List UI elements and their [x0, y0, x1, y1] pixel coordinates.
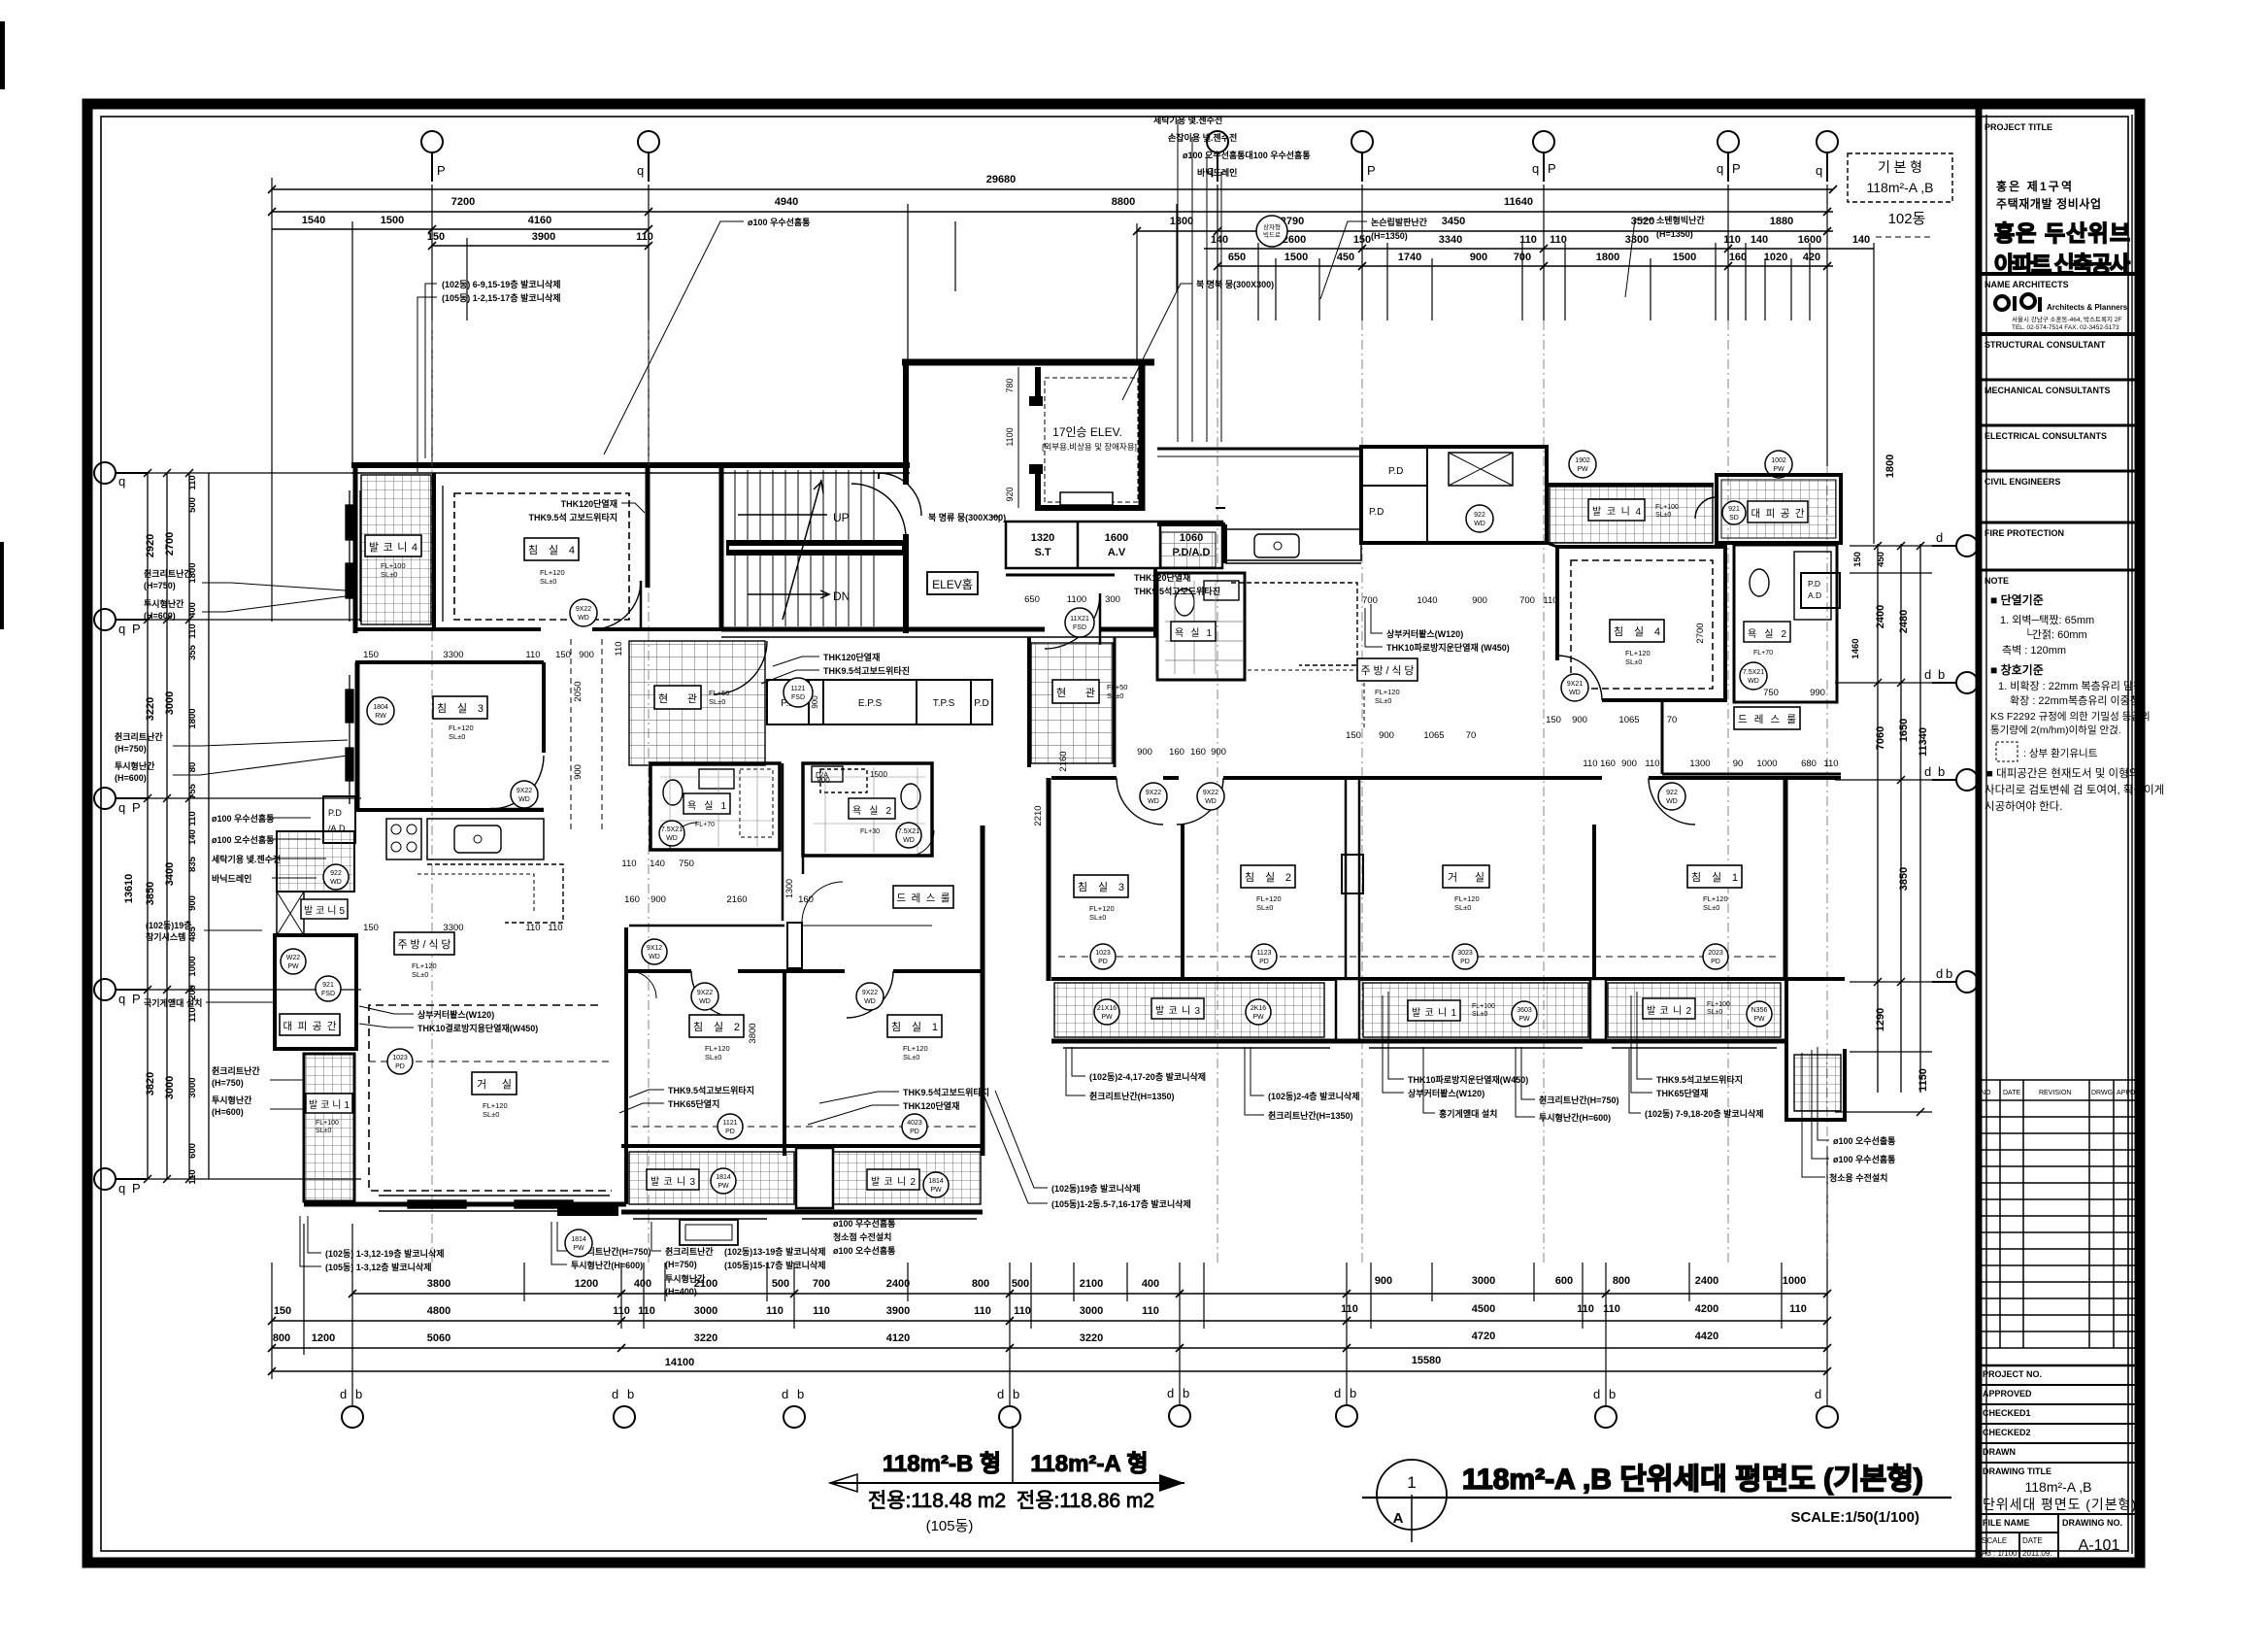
- dressroom door leaf: [787, 923, 802, 968]
- svg-text:WD: WD: [578, 615, 589, 622]
- wall party left: [1047, 778, 1051, 981]
- svg-text:WD: WD: [699, 998, 711, 1005]
- svg-text:110: 110: [187, 1007, 198, 1022]
- svg-text:CHECKED2: CHECKED2: [1983, 1428, 2031, 1437]
- architect logo: [1995, 294, 2040, 312]
- svg-text:PW: PW: [1518, 1016, 1530, 1023]
- svg-text:NOTE: NOTE: [1984, 576, 2009, 586]
- svg-text:920: 920: [1005, 487, 1015, 501]
- svg-text:3000: 3000: [164, 1076, 176, 1099]
- wall left exterior bedroom3: [355, 662, 360, 811]
- svg-text:d: d: [1936, 530, 1943, 545]
- balcony1 hatch: [304, 1054, 354, 1201]
- svg-text:FL+120: FL+120: [1256, 894, 1282, 903]
- dim tick marks top: [268, 185, 1837, 270]
- dim line row1 overall 29680: [272, 188, 1833, 190]
- svg-text:150: 150: [363, 650, 379, 660]
- balcony divider left unit: [796, 1148, 833, 1208]
- svg-text:650: 650: [1228, 252, 1246, 263]
- tag circle top center: [1256, 216, 1287, 247]
- wall balcony bottom left unit: [621, 1210, 983, 1215]
- svg-text:9X22: 9X22: [517, 788, 532, 794]
- svg-text:THK9.5석고보드위타진: THK9.5석고보드위타진: [823, 665, 910, 676]
- svg-text:췬크리트난간: 췬크리트난간: [144, 568, 192, 579]
- svg-text:300: 300: [1105, 594, 1120, 605]
- svg-text:q: q: [118, 992, 125, 1006]
- svg-text:922: 922: [1474, 512, 1485, 519]
- svg-text:췬크리트난간(H=1350): 췬크리트난간(H=1350): [1089, 1091, 1174, 1101]
- svg-text:1100: 1100: [1067, 594, 1086, 605]
- leader bottom cluster 3: [665, 1246, 714, 1297]
- svg-text:ELECTRICAL CONSULTANTS: ELECTRICAL CONSULTANTS: [1984, 431, 2107, 441]
- svg-text:2400: 2400: [1875, 605, 1886, 628]
- entry dim row right unit: [1024, 594, 1120, 605]
- leader cluster top middle: [1153, 115, 1311, 178]
- svg-text:P: P: [132, 800, 141, 815]
- svg-text:110: 110: [548, 923, 562, 933]
- svg-text:ø100 우수선홈통: ø100 우수선홈통: [212, 813, 274, 824]
- svg-text:110: 110: [187, 811, 198, 825]
- leader rail left 2: [115, 731, 163, 783]
- svg-text:시공하여야 한다.: 시공하여야 한다.: [1984, 799, 2062, 813]
- svg-text:7060: 7060: [1875, 726, 1886, 750]
- revision table: [1979, 1080, 2140, 1348]
- svg-text:(102동)13-19층 발코니삭제: (102동)13-19층 발코니삭제: [724, 1246, 826, 1257]
- svg-text:RW: RW: [375, 713, 386, 720]
- svg-text:(102동) 1-3,12-19층 발코니삭제: (102동) 1-3,12-19층 발코니삭제: [325, 1248, 445, 1259]
- svg-text:췬크리트난간: 췬크리트난간: [115, 731, 163, 742]
- balcony4 right hatch: [1550, 487, 1713, 543]
- kitchen stove: [386, 819, 421, 859]
- balcony3 label left: [647, 1169, 699, 1190]
- PD dashed line left unit: [369, 1061, 612, 1062]
- svg-text:755: 755: [187, 783, 198, 799]
- svg-text:기본형: 기본형: [1878, 159, 1922, 175]
- svg-text:110: 110: [813, 1305, 830, 1317]
- svg-text:THK120단열재: THK120단열재: [903, 1100, 959, 1111]
- tag PW bottom left: [565, 1230, 592, 1257]
- svg-text:욕실2: 욕실2: [852, 805, 891, 817]
- svg-text:(H=400): (H=400): [665, 1287, 697, 1297]
- svg-text:췬크리트난간: 췬크리트난간: [212, 1065, 260, 1076]
- svg-text:d: d: [997, 1387, 1004, 1401]
- svg-text:청소용 수전설치: 청소용 수전설치: [1829, 1172, 1887, 1183]
- tag FSD hall door: [1065, 608, 1094, 637]
- grid bubble tails left: [118, 474, 141, 1196]
- wall bed1 right: [981, 825, 985, 1156]
- door tag bedroom3: [511, 781, 538, 808]
- svg-text:WD: WD: [903, 837, 915, 844]
- svg-text:b: b: [1609, 1387, 1616, 1401]
- svg-text:사다리로 검토변쉐 검 토여여, 확좋이게: 사다리로 검토변쉐 검 토여여, 확좋이게: [1984, 784, 2164, 796]
- svg-text:투시형난간: 투시형난간: [212, 1095, 252, 1105]
- svg-text:ø100 오수선홈통: ø100 오수선홈통: [212, 834, 274, 845]
- svg-text:ø100 오수선홈통대100 우수선홈통: ø100 오수선홈통대100 우수선홈통: [1183, 150, 1311, 160]
- svg-text:3000: 3000: [694, 1305, 717, 1317]
- svg-text:FL+100: FL+100: [1472, 1003, 1495, 1010]
- svg-text:발코니5: 발코니5: [304, 905, 345, 917]
- svg-text:PD: PD: [725, 1129, 735, 1135]
- door arc bedroom4 left: [592, 581, 641, 629]
- svg-text:FSD: FSD: [1073, 624, 1086, 631]
- stair landing bar: [726, 540, 905, 556]
- svg-text:780: 780: [1005, 378, 1015, 392]
- svg-text:4160: 4160: [528, 215, 551, 226]
- svg-text:WD: WD: [1569, 690, 1581, 696]
- svg-text:SL±0: SL±0: [449, 732, 465, 741]
- svg-text:투시형난간: 투시형난간: [144, 598, 184, 609]
- svg-text:110: 110: [1723, 234, 1741, 246]
- svg-text:q: q: [118, 622, 125, 636]
- leader wall note bedroom4 right: [1386, 628, 1510, 653]
- svg-text:1000: 1000: [187, 956, 198, 976]
- svg-text:1300: 1300: [1689, 758, 1710, 769]
- svg-text:110: 110: [614, 641, 624, 656]
- svg-text:q: q: [118, 474, 125, 489]
- svg-text:102동: 102동: [1888, 211, 1926, 227]
- svg-text:2480: 2480: [1898, 610, 1910, 633]
- svg-text:(H=1350): (H=1350): [1656, 229, 1693, 239]
- svg-text:900: 900: [573, 764, 584, 780]
- svg-text:DRWG: DRWG: [2091, 1090, 2113, 1096]
- wall bed2/living right unit: [1346, 778, 1359, 981]
- leader far right pipes: [1829, 1135, 1895, 1183]
- svg-text:3603: 3603: [1517, 1007, 1532, 1014]
- door arc stair to hall: [851, 484, 906, 538]
- svg-text:PW: PW: [573, 1245, 584, 1252]
- dressroom right walls: [1661, 702, 1664, 774]
- door arcs bedrooms left unit: [691, 971, 738, 1018]
- bottom step ledge: [557, 1204, 618, 1216]
- svg-text:2100: 2100: [1080, 1278, 1103, 1290]
- bathroom2 label left: [849, 798, 895, 819]
- svg-text:DN: DN: [833, 590, 850, 603]
- room4 insulation dashed: [454, 493, 629, 620]
- svg-text:d: d: [1593, 1387, 1600, 1401]
- svg-text:전용:118.48 m2: 전용:118.48 m2: [868, 1490, 1006, 1512]
- svg-text:90: 90: [1733, 758, 1744, 769]
- PD circles left unit: [387, 1049, 413, 1074]
- svg-text:확장 : 22mm복층유리 이중창: 확장 : 22mm복층유리 이중창: [2010, 694, 2140, 707]
- svg-text:(H=600): (H=600): [212, 1107, 244, 1117]
- wall core top: [351, 462, 910, 468]
- svg-text:d: d: [1924, 667, 1931, 682]
- svg-text:A: A: [1393, 1510, 1404, 1527]
- svg-text:110: 110: [1577, 1303, 1594, 1315]
- svg-text:150: 150: [363, 923, 379, 933]
- door arcs bedrooms right unit: [1117, 778, 1163, 825]
- svg-text:FL+120: FL+120: [483, 1101, 508, 1110]
- svg-text:단위세대 평면도 (기본형): 단위세대 평면도 (기본형): [1983, 1497, 2136, 1512]
- svg-text:APPROVED: APPROVED: [1983, 1389, 2032, 1398]
- svg-text:바닉드레인: 바닉드레인: [212, 873, 251, 884]
- door tags bedrooms left: [691, 983, 718, 1010]
- wall elevator block left: [903, 362, 909, 485]
- svg-text:홍기게얟대 설치: 홍기게얟대 설치: [1439, 1108, 1497, 1119]
- svg-text:SL±0: SL±0: [1089, 913, 1106, 922]
- svg-text:q: q: [118, 1181, 125, 1196]
- svg-text:150: 150: [1346, 730, 1361, 741]
- svg-text:THK9.5석고보드위타진: THK9.5석고보드위타진: [1134, 586, 1220, 596]
- svg-text:욕실1: 욕실1: [1175, 627, 1212, 639]
- svg-text:PD: PD: [910, 1129, 919, 1135]
- scan artifact left edge top: [0, 21, 5, 89]
- duct strip labels: [781, 698, 988, 709]
- tag WD balcony5: [323, 864, 349, 890]
- svg-text:q: q: [637, 163, 644, 178]
- svg-text:110: 110: [525, 650, 540, 660]
- wall bedroom4 right: [646, 465, 650, 588]
- svg-text:세탁기용 넻.젠수전: 세탁기용 넻.젠수전: [1153, 115, 1222, 125]
- svg-text:DRAWING TITLE: DRAWING TITLE: [1983, 1466, 2051, 1476]
- svg-text:WD: WD: [1474, 521, 1485, 527]
- grid bubble tails top: [437, 161, 1822, 178]
- svg-text:2400: 2400: [886, 1278, 910, 1290]
- kitchen dim row right: [1362, 595, 1558, 606]
- svg-text:DRAWN: DRAWN: [1983, 1447, 2016, 1457]
- svg-text:b: b: [355, 1387, 362, 1401]
- svg-text:SL±0: SL±0: [1703, 903, 1719, 912]
- wall foyer right: [1027, 637, 1031, 767]
- svg-text:WD: WD: [518, 796, 530, 803]
- svg-text:(H=600): (H=600): [144, 611, 176, 621]
- balcony2 label left: [867, 1169, 919, 1190]
- svg-text:110: 110: [1014, 1305, 1031, 1317]
- svg-text:THK120단열재: THK120단열재: [561, 498, 617, 509]
- door arc foyer left: [714, 641, 767, 694]
- title block inner edge thin: [1985, 115, 1987, 1554]
- svg-text:118m²-B 형: 118m²-B 형: [883, 1451, 1001, 1477]
- svg-text:835: 835: [187, 856, 198, 872]
- svg-text:빅드로: 빅드로: [1263, 230, 1281, 239]
- wall balcony4 right top: [1547, 483, 1714, 487]
- svg-text:통기량에 2(m/hm)이하일 안걵.: 통기량에 2(m/hm)이하일 안걵.: [1990, 724, 2121, 736]
- svg-text:투시형난간: 투시형난간: [115, 760, 155, 771]
- left dim numbers rotated: [123, 475, 198, 1184]
- svg-text:1290: 1290: [1875, 1008, 1886, 1031]
- svg-text:DATE: DATE: [2003, 1090, 2020, 1096]
- svg-text:상자형: 상자형: [1263, 222, 1281, 231]
- svg-text:PW: PW: [717, 1183, 729, 1190]
- svg-text:8800: 8800: [1112, 196, 1135, 208]
- svg-text:900: 900: [1379, 730, 1394, 741]
- svg-text:110: 110: [1583, 758, 1597, 769]
- svg-text:3850: 3850: [145, 882, 156, 905]
- corridor walls between baths: [782, 763, 784, 921]
- svg-text:9X22: 9X22: [1203, 790, 1218, 796]
- svg-text:150: 150: [427, 231, 445, 243]
- room label bedroom2 right: [1241, 865, 1295, 888]
- svg-text:900: 900: [1137, 747, 1152, 758]
- svg-text:9X12: 9X12: [647, 945, 662, 952]
- svg-text:b: b: [1938, 764, 1945, 779]
- svg-text:FILE NAME: FILE NAME: [1983, 1518, 2030, 1528]
- svg-text:700: 700: [1519, 595, 1535, 606]
- svg-text:A.V: A.V: [1108, 547, 1126, 558]
- svg-text:2210: 2210: [1033, 805, 1044, 825]
- svg-text:140: 140: [1211, 234, 1228, 246]
- leader wall note right living: [1408, 1074, 1528, 1098]
- svg-text:17인승 ELEV.: 17인승 ELEV.: [1052, 425, 1122, 439]
- svg-text:110: 110: [1603, 1303, 1620, 1315]
- leader bottom cluster 4: [724, 1246, 826, 1270]
- svg-text:1121: 1121: [722, 1120, 737, 1127]
- leader bottom cluster 1: [325, 1248, 445, 1272]
- title block divider architect/structural: [1979, 332, 2140, 336]
- svg-text:SL±0: SL±0: [412, 970, 428, 979]
- room label bedroom3 left: [433, 696, 487, 719]
- svg-text:THK10파로방지운단열재(W450): THK10파로방지운단열재(W450): [1408, 1074, 1528, 1085]
- dim line row3 left: [272, 228, 649, 230]
- leader bottom cluster 2: [571, 1246, 650, 1270]
- svg-text:ø100 우수선홈통: ø100 우수선홈통: [748, 217, 810, 227]
- wall bedroom3 bottom: [355, 808, 544, 812]
- svg-text:1000: 1000: [1783, 1275, 1806, 1287]
- svg-text:WD: WD: [1148, 798, 1159, 805]
- svg-text:투시형난간(H=600): 투시형난간(H=600): [1539, 1112, 1611, 1123]
- svg-text:KS F2292 규정에 의한 기밀성 등급의: KS F2292 규정에 의한 기밀성 등급의: [1990, 711, 2151, 723]
- svg-text:P: P: [132, 992, 141, 1006]
- foyer left unit hatch: [629, 641, 765, 765]
- svg-text:1121: 1121: [790, 686, 805, 692]
- svg-text:홍은 두산위브: 홍은 두산위브: [1994, 220, 2130, 246]
- svg-text:1500: 1500: [1284, 252, 1308, 263]
- svg-text:922: 922: [330, 870, 342, 877]
- svg-text:4200: 4200: [1695, 1303, 1718, 1315]
- tag WD laundry: [1466, 505, 1493, 532]
- wall hall bottom: [721, 627, 1045, 632]
- svg-text:WD: WD: [330, 879, 342, 886]
- door tag bedroom4 left: [570, 599, 597, 626]
- svg-text:P.D: P.D: [1808, 579, 1820, 589]
- svg-text:800: 800: [273, 1332, 290, 1344]
- bathroom2 right label: [1744, 622, 1790, 642]
- svg-text:DATE: DATE: [2022, 1536, 2043, 1545]
- svg-text:1804: 1804: [373, 704, 388, 711]
- svg-text:PD: PD: [395, 1063, 405, 1070]
- svg-text:(105동) 1-3,12층 발코니삭제: (105동) 1-3,12층 발코니삭제: [325, 1262, 432, 1272]
- svg-text:[외부용,비상용 및 장애자용]: [외부용,비상용 및 장애자용]: [1042, 442, 1137, 452]
- svg-text:700: 700: [1362, 595, 1378, 606]
- border frame inner thin: [101, 117, 2128, 1551]
- kitchen upper cabinet dashed: [427, 864, 563, 923]
- wall bedroom3 top: [355, 660, 544, 664]
- wall balcony4/room4: [432, 473, 436, 629]
- svg-text:118m²-A ,B: 118m²-A ,B: [2025, 1479, 2092, 1495]
- dim line row4 right: [1204, 248, 1874, 250]
- svg-text:(H=750): (H=750): [115, 744, 147, 754]
- svg-text:(H=1350): (H=1350): [1371, 231, 1408, 241]
- title block divider fire/note: [1979, 569, 2140, 572]
- svg-text:9X22: 9X22: [1146, 790, 1161, 796]
- svg-text:WD: WD: [864, 998, 876, 1005]
- svg-text:ø100 오수선출통: ø100 오수선출통: [1833, 1135, 1895, 1146]
- svg-text:P: P: [1732, 161, 1741, 176]
- leader wall note kitchen left: [823, 652, 910, 676]
- svg-text:세탁기용 넻.젠수전: 세탁기용 넻.젠수전: [212, 854, 281, 864]
- border frame outer: [87, 104, 2140, 1563]
- svg-text:b: b: [1350, 1386, 1356, 1400]
- svg-text:110: 110: [1341, 1303, 1358, 1315]
- svg-text:110: 110: [1142, 1305, 1159, 1317]
- svg-text:(105동)15-17층 발코니삭제: (105동)15-17층 발코니삭제: [724, 1260, 826, 1270]
- balcony3 label right: [1151, 998, 1204, 1019]
- wall living/bed2: [624, 927, 628, 1204]
- svg-text:1800: 1800: [1596, 252, 1619, 263]
- bathroom1 right label: [1171, 622, 1216, 641]
- svg-text:1150: 1150: [1918, 1068, 1929, 1092]
- svg-text:150: 150: [274, 1305, 291, 1317]
- svg-text:FL+100: FL+100: [316, 1120, 339, 1127]
- escape room left walls: [275, 935, 356, 1049]
- svg-text:2050: 2050: [573, 681, 584, 701]
- svg-text:E.P.S: E.P.S: [858, 698, 883, 709]
- svg-text:췬크리트난간(H=750): 췬크리트난간(H=750): [1539, 1095, 1618, 1105]
- svg-text:T.P.S: T.P.S: [933, 698, 955, 709]
- type divider: [1012, 1426, 1014, 1484]
- tag SD escape: [1722, 501, 1746, 524]
- svg-text:PD: PD: [1711, 959, 1720, 965]
- svg-text:900: 900: [1470, 252, 1487, 263]
- leader wall note left living: [417, 1009, 538, 1033]
- svg-text:400: 400: [1142, 1278, 1159, 1290]
- svg-text:160: 160: [1729, 252, 1747, 263]
- svg-text:921: 921: [322, 982, 334, 989]
- PD circles right unit: [1090, 944, 1116, 969]
- svg-text:2160: 2160: [726, 894, 747, 905]
- svg-text:(102동) 6-9,15-19층 발코니삭제: (102동) 6-9,15-19층 발코니삭제: [442, 279, 561, 289]
- tag PW balcony3 right: [1094, 999, 1119, 1025]
- svg-text:■ 대피공간은 현재도서 및 이형의: ■ 대피공간은 현재도서 및 이형의: [1986, 767, 2139, 780]
- balcony strip left unit hatch: [629, 1152, 794, 1204]
- dim extension verticals top: [272, 178, 1874, 622]
- svg-text:1902: 1902: [1575, 457, 1590, 464]
- svg-text:2920: 2920: [145, 534, 156, 557]
- wall stair left: [719, 465, 724, 630]
- corridor wall lower: [629, 925, 784, 927]
- svg-text:3400: 3400: [164, 862, 176, 886]
- svg-text:FL+100: FL+100: [1655, 504, 1679, 511]
- svg-text:921: 921: [1728, 506, 1740, 513]
- svg-text:9X22: 9X22: [862, 990, 878, 996]
- svg-text:7200: 7200: [451, 196, 475, 208]
- wall bed1 right unit right: [1784, 778, 1788, 981]
- wall living/bed1 right unit: [1592, 825, 1596, 981]
- svg-text:FL+120: FL+120: [1089, 904, 1115, 913]
- svg-text:P: P: [1367, 163, 1376, 178]
- svg-text:1: 1: [1407, 1473, 1416, 1492]
- svg-text:4120: 4120: [886, 1332, 910, 1344]
- svg-text:SL±0: SL±0: [1256, 903, 1273, 912]
- room label bedroom1 right: [1687, 865, 1742, 888]
- PD dashed line right unit: [1058, 956, 1777, 958]
- svg-text:SL±0: SL±0: [903, 1053, 919, 1061]
- svg-text:2700: 2700: [164, 532, 176, 556]
- bathroom2 right: [1734, 545, 1837, 702]
- kitchen counter right top: [1225, 529, 1361, 560]
- corridor dashed verticals: [571, 639, 602, 830]
- svg-text:600: 600: [187, 1143, 198, 1159]
- stair arrow: [738, 480, 829, 620]
- svg-text:■ 단열기준: ■ 단열기준: [1990, 592, 2044, 607]
- right end wall structure: [1784, 979, 1788, 1122]
- leader rail bottom left: [212, 1065, 260, 1117]
- door arc bath2 left: [909, 830, 934, 856]
- svg-text:NO: NO: [1981, 1090, 1991, 1096]
- svg-text:3450: 3450: [1442, 216, 1465, 227]
- svg-text:FSD: FSD: [791, 694, 805, 701]
- bottom dim row2: [272, 1320, 1827, 1322]
